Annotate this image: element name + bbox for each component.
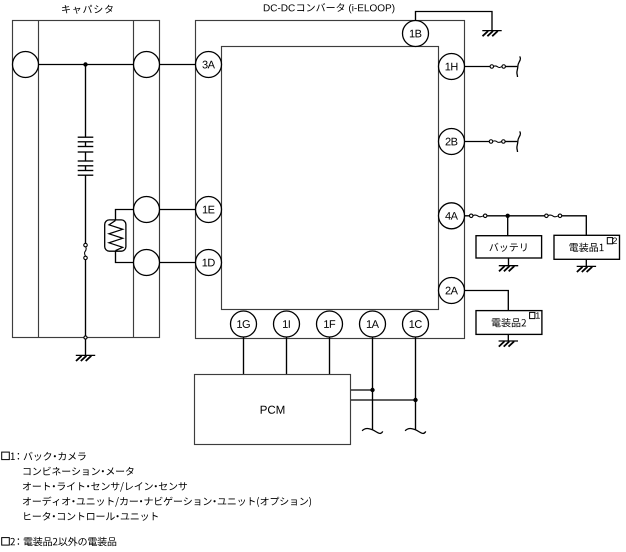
wire: capacitor stack to inline connector xyxy=(85,175,87,243)
legend line 4 xyxy=(23,496,311,506)
wire: electrical component 2 to ground xyxy=(507,334,509,341)
note marker 2 legend xyxy=(2,538,10,546)
wire: 1G to PCM xyxy=(243,337,245,375)
ground (electrical component 2) xyxy=(499,341,518,347)
terminal 1E xyxy=(196,197,222,223)
wire: 1B to ground xyxy=(416,12,493,31)
wire: electrical component 1 to ground xyxy=(585,259,587,266)
terminal 1H xyxy=(439,54,465,80)
junction: capacitor bus node xyxy=(83,62,87,66)
terminal 1D xyxy=(196,250,222,276)
terminal 1G xyxy=(231,311,257,337)
wire: 1H feed xyxy=(452,66,490,68)
capacitor unit outline xyxy=(13,21,160,338)
capacitor unit right connector strip line xyxy=(133,21,135,338)
wire-continuation wave (1A) xyxy=(362,429,383,434)
wire: 4A feed xyxy=(452,215,470,217)
terminal 1I xyxy=(274,311,300,337)
capacitor terminal (to 1D) xyxy=(134,250,160,276)
wire: 2A to electrical component 2 xyxy=(452,291,509,311)
note marker 1 legend xyxy=(2,452,10,460)
terminal 1F xyxy=(317,311,343,337)
terminal 1C xyxy=(403,311,429,337)
terminal 1A xyxy=(360,311,386,337)
wire: bus down to capacitor stack xyxy=(85,65,87,138)
ground (capacitor unit) xyxy=(76,355,95,361)
junction: PCM/1A xyxy=(370,388,374,392)
capacitor unit left connector strip line xyxy=(38,21,40,338)
inline connector (1H) xyxy=(494,66,503,68)
ground (electrical component 1) xyxy=(577,266,596,272)
capacitor unit title xyxy=(62,5,113,14)
wire: battery drop xyxy=(507,216,509,236)
wire: PCM stub to 1C xyxy=(351,399,416,401)
terminal 3A xyxy=(196,52,222,78)
note marker 1 (on electrical component 2) xyxy=(530,312,535,318)
wire: 1C down xyxy=(415,337,417,430)
capacitor stack C1-C4 (series plates) xyxy=(78,137,94,175)
PCM box xyxy=(195,375,351,445)
junction: battery tap xyxy=(506,214,510,218)
wire: 2B feed xyxy=(452,141,490,143)
wire: 1A down xyxy=(372,337,374,430)
junction: PCM/1C xyxy=(413,398,417,402)
wire-continuation squiggle (1H) xyxy=(517,56,520,77)
battery box xyxy=(476,236,542,258)
wire: 1E row xyxy=(134,209,196,211)
note marker 2 (on electrical component 1) xyxy=(607,238,612,244)
inline connector (4A electrical-1 side) xyxy=(548,215,558,217)
ground (battery) xyxy=(499,266,518,272)
PCM label xyxy=(261,406,285,414)
wire-continuation wave (1C) xyxy=(405,429,426,434)
inline connector (capacitor ground lead) xyxy=(85,247,87,256)
wire: to electrical component 1 xyxy=(562,216,586,236)
capacitor terminal (to 1E) xyxy=(134,197,160,223)
capacitor terminal (left, +) xyxy=(13,52,39,78)
terminal 2A xyxy=(439,278,465,304)
wire-continuation squiggle (2B) xyxy=(517,131,520,152)
legend line 5 xyxy=(24,512,158,521)
inline connector (4A battery side) xyxy=(473,215,484,217)
inline connector (2B) xyxy=(493,141,502,143)
wire: PCM stub to 1A xyxy=(351,389,373,391)
terminal 2B xyxy=(439,129,465,155)
wire: battery to ground xyxy=(508,258,510,266)
ground (1B) xyxy=(482,31,501,37)
DC-DC converter inner outline xyxy=(222,47,439,310)
wire: resistor branch left leg xyxy=(116,210,134,263)
wire: 1I to PCM xyxy=(286,337,288,375)
resistor R (capacitor internal discharge resistor) xyxy=(105,220,126,251)
capacitor terminal (right, to 3A) xyxy=(134,52,160,78)
wire: connector to capacitor case bottom xyxy=(85,260,87,356)
wire: 1F to PCM xyxy=(329,337,331,375)
electrical component 2 box xyxy=(476,311,542,335)
wire: capacitor positive bus (row 3A) xyxy=(39,64,134,66)
DC-DC converter outer outline xyxy=(196,21,465,339)
terminal 4A xyxy=(439,203,465,229)
electrical component 1 box xyxy=(554,235,620,259)
terminal 1B xyxy=(403,21,429,47)
node: capacitor case bottom feedthrough xyxy=(84,336,87,339)
legend line 2 xyxy=(24,467,134,476)
wire: capacitor to 3A xyxy=(160,64,196,66)
wire: 4A bus to battery junction and second connector xyxy=(487,215,544,217)
legend line 3 xyxy=(23,482,187,492)
wire: 1D row xyxy=(134,262,196,264)
DC-DC converter title xyxy=(264,4,295,11)
